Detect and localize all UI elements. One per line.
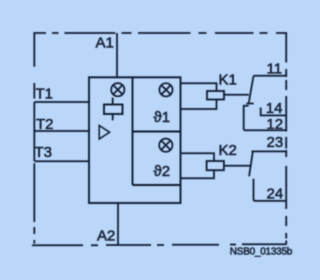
wire K2 coil bottom to block	[181, 170, 215, 178]
K1 moving contact arm	[249, 76, 254, 103]
wire terminal T2	[34, 130, 89, 132]
svg-text:12: 12	[266, 116, 283, 133]
svg-text:K1: K1	[219, 72, 237, 89]
K2 moving contact arm	[249, 152, 253, 177]
NO contact 14 path	[261, 108, 286, 116]
test triangle	[99, 126, 109, 140]
wire A1	[116, 33, 118, 77]
indicator lamp (left section)	[111, 83, 124, 96]
wire block to K2 coil top	[181, 153, 215, 161]
svg-text:A1: A1	[96, 35, 114, 52]
wire lamp to box symbol	[112, 98, 114, 105]
svg-text:A2: A2	[97, 228, 115, 245]
K1 arm tip bar	[246, 103, 253, 105]
svg-text:NSB0_01335b: NSB0_01335b	[230, 246, 293, 257]
enclosure dashed border left	[33, 32, 35, 243]
NC contact 12 path	[243, 106, 287, 131]
wire contact 23	[252, 150, 288, 152]
indicator lamp channel 2	[159, 139, 172, 152]
svg-text:14: 14	[266, 100, 283, 117]
block inner section bottom	[133, 184, 181, 186]
svg-text:T1: T1	[36, 86, 54, 103]
svg-text:23: 23	[267, 134, 284, 151]
box symbol (supply unit)	[104, 105, 123, 115]
wire contact 11	[254, 75, 288, 77]
coil K1	[207, 91, 224, 100]
svg-text:11: 11	[267, 61, 283, 78]
indicator lamp channel 1	[159, 83, 172, 96]
enclosure dashed border top	[34, 32, 287, 34]
svg-text:T2: T2	[36, 116, 54, 133]
K1 actuator link	[224, 94, 249, 96]
svg-text:ϑ2: ϑ2	[154, 163, 171, 180]
wire terminal T1	[34, 101, 89, 103]
NO contact 24 path	[254, 179, 288, 201]
block inner divider horizontal (cell split)	[133, 131, 181, 133]
svg-text:K2: K2	[219, 142, 237, 159]
relay block outline	[89, 77, 181, 203]
block inner divider vertical	[132, 77, 134, 185]
enclosure dashed border right	[285, 32, 287, 244]
coil K2	[207, 161, 224, 170]
wire block to K1 coil top	[181, 83, 217, 91]
wire below box symbol	[112, 114, 114, 120]
svg-text:ϑ1: ϑ1	[154, 109, 171, 126]
wire A2	[117, 203, 119, 245]
svg-text:T3: T3	[35, 144, 53, 161]
enclosure dashed border bottom	[32, 243, 287, 246]
K2 actuator link	[224, 165, 250, 167]
wire terminal T3	[34, 160, 89, 162]
wire K1 coil bottom to block	[181, 100, 217, 110]
svg-text:24: 24	[267, 186, 284, 203]
